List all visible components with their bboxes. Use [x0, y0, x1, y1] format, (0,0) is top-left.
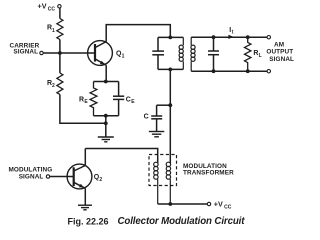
resistor R1: [57, 19, 63, 40]
inductor primary winding (modulation transformer): [154, 162, 158, 204]
label Q2: [94, 174, 103, 183]
modulating signal input terminal: [46, 175, 49, 178]
svg-text:L: L: [259, 53, 262, 59]
capacitor (tank primary): [152, 37, 164, 69]
ground (below Q2): [78, 205, 92, 210]
svg-text:Fig. 22.26: Fig. 22.26: [68, 216, 109, 226]
label RE: [79, 96, 88, 105]
wire Q1 emitter down to RE/CE: [105, 65, 107, 81]
svg-text:E: E: [84, 99, 88, 105]
caption Collector Modulation Circuit: [118, 216, 246, 227]
node collector feed / tank top: [168, 36, 172, 40]
node RL top: [246, 35, 250, 39]
svg-text:CC: CC: [48, 7, 56, 13]
wire Q1 collector up and over to tank primary: [106, 25, 170, 42]
AM output terminal (top): [267, 36, 270, 39]
AM output terminal (bottom): [267, 70, 270, 73]
wire tap to capacitor C: [157, 104, 171, 106]
wire Q2 collector over to modulation transformer primary: [85, 149, 157, 164]
wire R2 bottom to ground bus elbow: [60, 95, 106, 124]
caption Fig. 22.26: [68, 216, 109, 226]
transistor Q2: [67, 164, 92, 189]
label R1: [47, 25, 55, 34]
wire Q2 collector up: [84, 149, 86, 166]
node secondary cap top: [212, 35, 216, 39]
capacitor C: [151, 105, 162, 131]
wire Q2 emitter down: [84, 188, 86, 205]
resistor RL: [245, 37, 251, 71]
transistor Q1: [88, 41, 113, 66]
node capacitor C tap: [168, 103, 172, 107]
svg-text:+V: +V: [214, 200, 223, 209]
svg-text:SIGNAL: SIGNAL: [269, 56, 294, 63]
svg-text:SIGNAL: SIGNAL: [13, 49, 38, 56]
wire bottom rail to +Vcc: [158, 203, 208, 205]
inductor primary winding (RF transformer): [179, 37, 183, 69]
resistor R2: [57, 73, 63, 94]
svg-text:Collector Modulation Circuit: Collector Modulation Circuit: [118, 216, 246, 227]
wire secondary bottom rail to output: [191, 70, 267, 72]
svg-text:1: 1: [122, 53, 125, 59]
label CARRIER SIGNAL: [10, 42, 40, 55]
+Vcc terminal (bottom right): [207, 202, 210, 205]
wire tank primary top rail: [158, 36, 183, 38]
wire down to ground: [105, 116, 107, 137]
wire tank primary bottom rail: [158, 68, 183, 70]
node tank bottom / down feed: [168, 68, 172, 72]
svg-text:TRANSFORMER: TRANSFORMER: [183, 170, 234, 177]
svg-text:CC: CC: [224, 205, 232, 211]
svg-text:E: E: [131, 99, 135, 105]
node emitter / RE-CE top: [104, 80, 108, 84]
carrier signal input terminal: [40, 51, 43, 54]
wire tank bottom down to modulation transformer secondary: [169, 69, 171, 163]
wire secondary top rail to output: [191, 36, 267, 38]
label RL: [253, 50, 261, 59]
label C: [144, 113, 149, 120]
svg-text:C: C: [126, 96, 131, 103]
resistor RE: [90, 82, 97, 116]
node RL bottom: [246, 69, 250, 73]
svg-text:R: R: [79, 96, 84, 103]
svg-text:2: 2: [52, 83, 55, 89]
+Vcc supply terminal (top left): [58, 5, 61, 8]
label AM OUTPUT SIGNAL: [266, 42, 294, 63]
wire Vcc terminal to R1: [59, 8, 61, 19]
svg-text:1: 1: [52, 28, 55, 34]
svg-text:SIGNAL: SIGNAL: [19, 173, 44, 180]
svg-text:OUTPUT: OUTPUT: [266, 49, 293, 56]
node secondary cap bottom: [212, 69, 216, 73]
svg-text:+V: +V: [38, 2, 47, 11]
inductor secondary winding (RF transformer): [191, 37, 195, 71]
wire carrier terminal to Q1 base: [43, 52, 95, 54]
label R2: [47, 80, 55, 89]
wire R1 to R2 (through carrier node): [59, 40, 61, 74]
label +Vcc (top left): [38, 2, 56, 13]
node mod transformer secondary bottom: [168, 202, 172, 206]
svg-text:2: 2: [99, 177, 102, 183]
capacitor (secondary tank): [208, 37, 219, 71]
wire RE/CE top rail: [94, 81, 119, 83]
label MODULATING SIGNAL: [9, 167, 53, 181]
node RE-CE bottom: [104, 114, 108, 118]
wire RE/CE bottom rail: [94, 115, 119, 117]
node divider-return junction: [104, 121, 108, 125]
capacitor CE: [113, 82, 124, 116]
inductor secondary winding (modulation transformer): [166, 162, 170, 204]
wire modulating terminal to Q2 base: [50, 176, 74, 178]
label MODULATION TRANSFORMER: [183, 163, 234, 177]
label +Vcc (bottom right): [214, 200, 232, 211]
svg-text:t: t: [232, 30, 234, 36]
node carrier/divider junction: [58, 51, 62, 55]
label CE: [126, 96, 135, 105]
ground (main, below RE/CE): [98, 137, 114, 142]
current arrow It: [228, 35, 233, 39]
label It: [229, 27, 234, 36]
dashed box modulation transformer: [149, 155, 177, 186]
ground (below C): [149, 132, 164, 137]
label Q1: [116, 50, 125, 59]
svg-text:C: C: [144, 113, 149, 120]
